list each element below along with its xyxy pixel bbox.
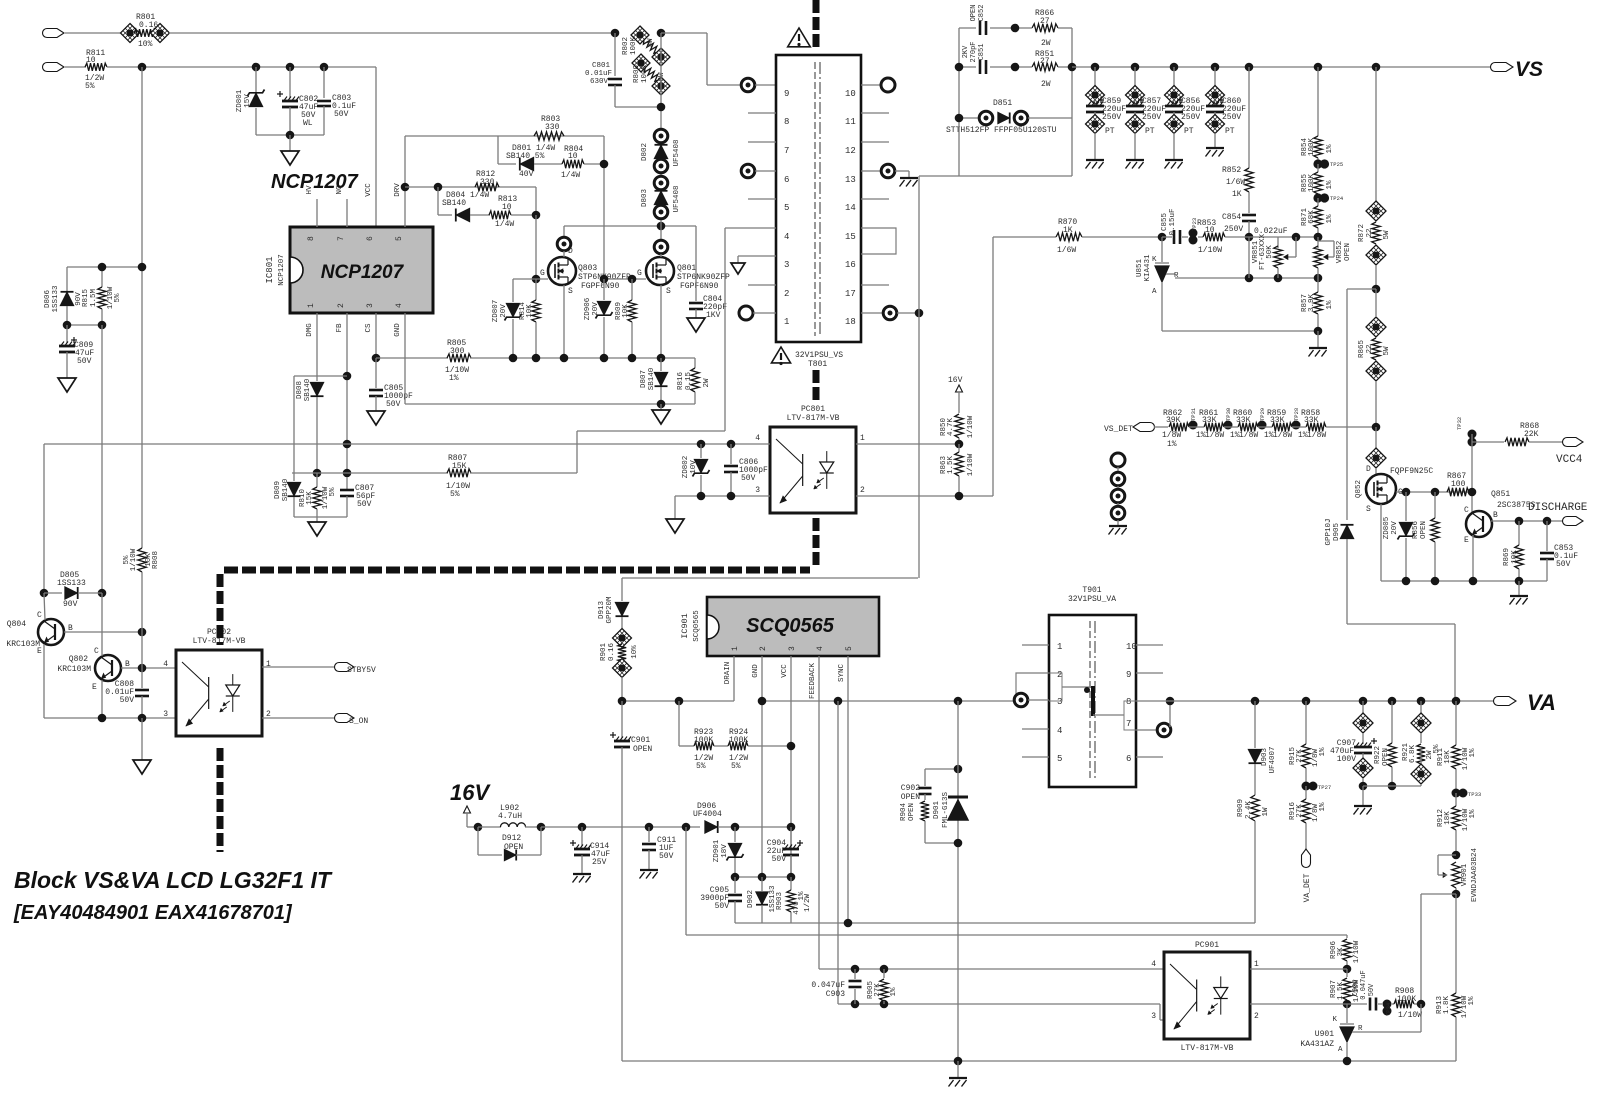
svg-text:C855: C855 [1161,213,1169,232]
resistor R810 15K 1/10W 5% [313,469,322,478]
svg-text:100V: 100V [1337,755,1356,764]
T901 pin stubs [1022,644,1049,646]
T801 pin1 open terminal [739,306,753,320]
svg-text:20V: 20V [500,304,508,318]
svg-text:UF4004: UF4004 [693,810,722,819]
VA_DET tab [1302,849,1311,868]
fusible link above Q852 [1375,427,1377,448]
wire [1421,893,1456,895]
svg-text:R: R [1174,272,1179,280]
svg-text:630V: 630V [590,78,609,86]
capacitor C859 220uF 250V PT [1091,63,1100,72]
capacitor C802 47uF 50V [289,67,291,98]
wire drain row [564,225,696,227]
svg-text:SB140: SB140 [304,378,312,401]
capacitor C805 1000pF 50V [375,358,377,388]
capacitor C906 0.047uF 50V [1347,1003,1367,1005]
svg-text:1%: 1% [1319,747,1327,757]
ground [666,519,684,533]
svg-text:27K: 27K [1296,749,1304,763]
svg-text:50V: 50V [120,696,135,705]
wire [67,266,142,268]
svg-text:OPEN: OPEN [970,5,978,22]
capacitor C902 OPEN [925,768,958,770]
svg-text:NCP1207: NCP1207 [321,262,405,283]
svg-text:12: 12 [845,146,856,156]
resistor R857 3.9K 1% [1317,278,1319,292]
resistor R869 10K [1518,521,1520,545]
zener ZD807 20V [512,279,514,302]
svg-text:OPEN: OPEN [1344,243,1352,261]
wire corner [535,187,537,215]
svg-text:R904: R904 [900,803,908,822]
svg-text:GND: GND [394,323,402,337]
svg-text:1/4W: 1/4W [561,171,580,180]
wire node [603,136,605,279]
wire D905 to VA rail [1346,539,1348,624]
svg-text:OPEN: OPEN [633,745,652,754]
svg-text:ZD805: ZD805 [1383,516,1391,539]
svg-text:R800: R800 [633,65,641,84]
svg-text:1%: 1% [1469,748,1477,758]
terminal [654,176,668,190]
input tab J2 [43,63,65,72]
svg-text:1%: 1% [1326,214,1334,224]
wire PC801 pin2 [856,495,993,497]
svg-text:13: 13 [845,175,856,185]
svg-text:25V: 25V [592,858,607,867]
wire R870 row [993,236,1056,238]
capacitor C852 OPEN [959,27,976,29]
svg-text:10: 10 [1205,226,1215,235]
svg-text:G: G [637,269,642,278]
svg-text:VA: VA [1527,690,1556,715]
page split bar horizontal [224,567,810,574]
svg-text:3: 3 [788,646,797,651]
resistor R802 100K 3W (fusible diagonal) [631,26,649,44]
svg-text:PT: PT [1145,127,1155,136]
svg-text:14: 14 [845,203,856,213]
svg-text:R922: R922 [1374,746,1382,764]
wire GND row [404,313,406,404]
svg-text:TP24: TP24 [1330,195,1344,202]
svg-text:50V: 50V [1556,560,1571,569]
capacitor C856 220uF 250V PT [1170,63,1179,72]
T901 pin7 terminal [1136,729,1157,731]
svg-text:SB140: SB140 [442,199,466,208]
diode D903 UF4007 [1251,697,1260,706]
svg-text:15V: 15V [244,94,252,108]
T801 pin stubs right [861,112,889,114]
svg-text:1.5K: 1.5K [1337,982,1345,1001]
svg-text:TP33: TP33 [1468,791,1481,798]
svg-text:C851: C851 [978,44,986,61]
svg-text:DMG: DMG [306,323,314,337]
terminal [654,159,668,173]
svg-text:TP32: TP32 [1456,417,1463,430]
resistor R858 33K 1/8W [1306,423,1326,431]
svg-text:27: 27 [1040,17,1050,26]
wire DRV node [405,135,498,137]
ground [58,378,76,392]
svg-text:2: 2 [337,303,346,308]
svg-text:6: 6 [784,175,789,185]
wire Q852 gate row [1396,491,1472,493]
svg-text:ZD901: ZD901 [713,839,721,862]
ground earth [957,1061,959,1078]
wire U851 ref row [1175,277,1318,279]
svg-text:IC901: IC901 [680,613,690,639]
wire feedback divider [678,701,680,746]
junction [682,823,691,832]
T901 internal primary tap [1049,673,1062,701]
svg-text:16V: 16V [948,376,963,385]
wire PC801 pin4 long row [44,443,770,445]
wire row to R909 [735,922,1255,924]
resistor R912 18K 1/10W 1% [1455,793,1457,806]
svg-text:15: 15 [845,232,856,242]
svg-text:U851: U851 [1136,259,1144,278]
svg-text:SB140: SB140 [648,367,656,390]
svg-text:ZD906: ZD906 [584,297,592,320]
resistor R854 100K 1% [1314,63,1323,72]
resistor R850 4.7K 1/10W [955,414,963,438]
svg-text:UF5408: UF5408 [673,185,681,212]
T901 pin2-3 loop [1016,673,1049,700]
wire [735,826,791,828]
svg-text:100K: 100K [641,65,649,84]
svg-text:VR901: VR901 [1461,863,1469,886]
resistor R853 10 1/10W [1198,236,1203,238]
svg-text:R872: R872 [1358,224,1366,242]
wire bottom feedback row [622,1060,1456,1062]
svg-text:0.047uF: 0.047uF [811,981,845,990]
svg-text:R865: R865 [1358,340,1366,359]
svg-text:D808: D808 [296,381,304,399]
wire rectifier column [660,33,662,226]
svg-text:10%: 10% [138,40,153,49]
svg-text:10K: 10K [1511,550,1519,564]
svg-text:1SS133: 1SS133 [52,285,60,313]
svg-text:10V: 10V [690,460,698,474]
resistor R852 1K 1/6W [1245,63,1254,72]
svg-text:DISCHARGE: DISCHARGE [1528,502,1588,514]
svg-text:50K: 50K [1266,245,1274,259]
VS rail wire [1072,66,1493,68]
svg-text:330: 330 [545,123,560,132]
svg-text:R901: R901 [600,643,608,662]
svg-text:2: 2 [759,646,768,651]
svg-text:SYNC: SYNC [838,664,846,683]
transistor Q803 STP6NK90ZFP FGPF6N90 [548,257,576,285]
T801 pin3 wire to ground [738,255,776,257]
svg-text:KRC103M: KRC103M [6,640,40,649]
svg-text:TP34: TP34 [1385,1002,1392,1016]
svg-text:10K: 10K [622,304,630,318]
junction [138,63,147,72]
svg-text:250V: 250V [1142,113,1161,122]
svg-text:TP31: TP31 [1190,407,1197,421]
svg-text:0.16: 0.16 [139,21,158,30]
wire R815 rail down [101,325,103,593]
svg-text:10: 10 [845,89,856,99]
svg-text:WL: WL [303,119,313,128]
svg-text:68K: 68K [1308,210,1316,224]
wire Q804 base [64,631,142,633]
resistor R804 10 1/4W [562,160,584,168]
resistor R815 1.5M 1/10W 5% [101,267,103,287]
svg-text:FB: FB [336,323,344,333]
svg-text:10: 10 [502,203,512,212]
svg-text:1%: 1% [1167,440,1177,449]
junction [611,29,620,38]
svg-text:D803: D803 [641,189,649,208]
svg-text:8: 8 [1126,697,1131,707]
svg-text:3: 3 [366,303,375,308]
svg-text:1: 1 [860,434,865,443]
svg-text:5W: 5W [1383,346,1391,356]
svg-text:S_ON: S_ON [349,717,368,726]
resistor R913 1.8K 1/10W 1% [1455,894,1457,993]
svg-text:3: 3 [1151,1012,1156,1021]
page split bar below T801 [813,370,820,403]
diode D913 GPP20M [616,603,629,616]
svg-text:SB140: SB140 [282,478,290,501]
svg-text:NCP1207: NCP1207 [278,254,286,286]
resistor R859 33K 1/8W [1272,423,1292,431]
diode D808 SB140 on DMG [316,313,318,381]
terminal above Q803 [563,226,565,237]
svg-text:1K: 1K [1063,226,1073,235]
svg-text:VS: VS [1515,58,1543,81]
svg-text:100: 100 [1451,480,1466,489]
svg-text:20V: 20V [592,302,600,316]
resistor R851 27 2W [1032,63,1058,71]
rail from R811 junction [141,67,143,548]
diode D807 SB140 [660,358,662,371]
svg-text:1/10W: 1/10W [130,548,138,571]
svg-text:K: K [1332,1016,1337,1024]
resistor R870 1K 1/6W [1056,233,1082,241]
svg-text:1.5K: 1.5K [947,456,955,475]
svg-text:STP6NK90ZFP: STP6NK90ZFP [677,273,730,282]
svg-text:270pF: 270pF [970,41,978,62]
svg-text:32V1PSU_VS: 32V1PSU_VS [795,351,843,360]
svg-text:[EAY40484901 EAX41678701]: [EAY40484901 EAX41678701] [13,902,293,924]
pin 5 DRV [404,136,406,227]
svg-text:E: E [1464,536,1469,545]
svg-text:TP29: TP29 [1259,408,1266,421]
svg-text:100K: 100K [694,736,713,745]
svg-text:PT: PT [1184,127,1194,136]
svg-text:R816: R816 [677,372,685,391]
resistor R911 18K 1/10W 1% [1452,697,1461,706]
svg-text:1/10W: 1/10W [967,453,975,476]
resistor R863 1.5K 1/10W [958,444,960,452]
svg-text:VA_DET: VA_DET [1303,873,1312,902]
SCQ0565 pin 2 GND [761,656,763,877]
resistor R909 2.4K 1W [1251,795,1259,821]
wire [293,376,295,473]
svg-text:1: 1 [1057,642,1062,652]
svg-text:1: 1 [307,303,316,308]
capacitor C911 1UF 50V [645,823,654,832]
pin 7 NC [346,199,348,227]
svg-text:TP30: TP30 [1225,408,1232,421]
svg-text:17: 17 [845,289,856,299]
svg-text:1%: 1% [449,374,459,383]
svg-text:NC: NC [336,185,344,195]
svg-text:100K: 100K [1308,174,1316,193]
T801 pin13 terminal + earth [861,170,881,172]
capacitor C809 47uF 50V [66,325,68,343]
transformer T801 32V1PSU_VS body [776,55,861,342]
svg-text:5: 5 [784,203,789,213]
svg-text:2: 2 [1254,1012,1259,1021]
svg-text:0.047uF: 0.047uF [1360,970,1368,999]
potentiometer VR851 FT-63XXX 50K [1277,237,1279,248]
zener ZD801 15V [255,67,257,92]
svg-text:3.9K: 3.9K [1308,294,1316,313]
diode D804 SB140 [437,187,439,215]
svg-text:3: 3 [163,710,168,719]
svg-text:39K: 39K [1166,416,1181,425]
svg-text:4: 4 [755,434,760,443]
svg-text:50V: 50V [741,474,756,483]
svg-text:VCC4: VCC4 [1556,454,1583,466]
svg-text:50V: 50V [386,400,401,409]
svg-text:10: 10 [86,56,96,65]
wire drain row [622,700,734,702]
svg-text:100K: 100K [630,37,638,56]
capacitor C857 220uF 250V PT [1131,63,1140,72]
warning triangle [788,28,811,47]
svg-text:27K: 27K [1296,804,1304,818]
svg-text:7: 7 [1126,719,1131,729]
svg-text:GPP10J: GPP10J [1325,518,1333,545]
svg-text:T901: T901 [1082,586,1101,595]
ground [687,318,705,332]
test point TP28 [1292,421,1301,430]
svg-text:22: 22 [1366,344,1374,353]
svg-text:10: 10 [568,152,578,161]
svg-text:15K: 15K [306,491,314,505]
svg-text:3W: 3W [658,72,666,82]
ground [289,135,291,151]
SCQ0565 pin 4 FEEDBACK [818,656,820,969]
svg-text:IC801: IC801 [265,256,275,283]
wire bottom row to PC802 [44,717,176,719]
svg-text:D902: D902 [747,890,755,908]
resistor R901 0.16 10% (fusible) [613,629,632,648]
resistor R862 39K 1/8W 1% [1154,426,1168,428]
svg-text:C902: C902 [901,784,920,793]
junctions on source row [509,354,518,363]
capacitor C801 0.01uF 630V [614,33,616,76]
ground earth [1518,581,1520,596]
capacitor C860 220uF 250V PT [1211,63,1220,72]
svg-text:TP25: TP25 [1330,161,1343,168]
resistor R865 22 5W (fusible) [1366,317,1386,337]
zener ZD901 18V [734,827,736,842]
capacitor C914 47uF 25V [578,823,587,832]
svg-text:10K: 10K [526,304,534,318]
svg-text:3: 3 [755,486,760,495]
diode D805 1SS133 90V [40,589,49,598]
svg-text:1%: 1% [1326,180,1334,190]
svg-text:GPP20M: GPP20M [606,596,614,624]
svg-text:R: R [1358,1025,1363,1033]
svg-text:1%: 1% [1468,996,1476,1006]
svg-text:C: C [94,647,99,656]
svg-text:5%: 5% [85,82,95,91]
svg-text:S: S [666,287,671,296]
svg-text:16: 16 [845,260,856,270]
svg-text:1/6W: 1/6W [1226,178,1245,187]
svg-text:FGPF6N90: FGPF6N90 [680,282,719,291]
svg-text:CS: CS [365,323,373,333]
test point TP31 [1189,421,1198,430]
wire Q803 source [563,285,565,358]
wire to VCC [107,66,376,68]
svg-text:OPEN: OPEN [901,793,920,802]
svg-text:6: 6 [1126,754,1131,764]
T801 pin4 wire [725,227,776,229]
wire snubber frame [958,28,960,176]
svg-text:R815: R815 [82,289,90,308]
wire [65,66,86,68]
svg-text:STTH512FP FFPF05U120STU: STTH512FP FFPF05U120STU [946,126,1057,135]
svg-text:C: C [37,611,42,620]
svg-text:C906: C906 [1352,980,1360,997]
T801 pin6 terminal [741,164,755,178]
svg-text:2.4K: 2.4K [1245,801,1253,820]
svg-text:250V: 250V [1222,113,1241,122]
svg-text:0.01uF: 0.01uF [585,70,612,78]
potentiometer VR852 OPEN [1317,237,1319,248]
resistor R905 27K 1% [883,969,885,978]
svg-text:E: E [92,683,97,692]
svg-text:1/8W: 1/8W [1205,431,1224,440]
svg-text:300: 300 [450,347,465,356]
resistor R867 100 [1447,488,1469,496]
svg-text:9: 9 [1126,670,1131,680]
pin 8 HV [316,199,318,227]
test point TP25 [1313,159,1322,168]
svg-text:0.16: 0.16 [608,643,616,662]
svg-text:VS_DET: VS_DET [1104,425,1133,434]
svg-text:D806: D806 [44,290,52,309]
wire [67,324,102,326]
IC901 SCQ0565 body [707,597,879,656]
svg-text:50V: 50V [1368,983,1376,996]
svg-text:1/8W: 1/8W [1273,431,1292,440]
resistor R921 6.8K 2W 5% (fusible) [1417,697,1426,706]
ground earth [1362,786,1364,806]
svg-text:D851: D851 [993,99,1012,108]
resistor R922 OPEN [1388,697,1397,706]
test point TP27 [1302,782,1311,791]
resistor R809 10K [631,279,633,300]
diode D902 1SS133 [761,877,763,891]
svg-text:PT: PT [1225,127,1235,136]
svg-text:1.5M: 1.5M [90,289,98,308]
wire [497,136,499,164]
wire snubber net from pin18 region [918,176,920,578]
svg-text:5: 5 [845,646,854,651]
svg-text:VCC: VCC [781,664,789,678]
svg-text:15K: 15K [452,462,467,471]
